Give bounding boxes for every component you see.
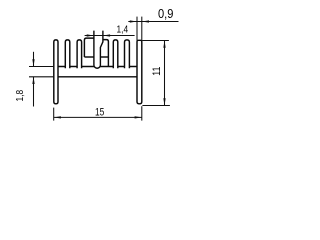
fin F3: [77, 40, 82, 68]
heatsink profile: left bar (fin F1 + left solder pin): [54, 40, 58, 104]
dim 11 top extension: [142, 40, 169, 42]
arrow 15 right (points right, tip at ext): [135, 116, 142, 118]
arrow 1,8 top (points down): [32, 59, 34, 66]
svg-text:15: 15: [95, 107, 104, 119]
heatsink profile: right bar (edge fin + right solder pin): [137, 40, 142, 104]
fin F5: [113, 40, 118, 68]
dim 15 left extension: [53, 108, 55, 121]
dim 1,8 bottom extension: [29, 76, 54, 78]
central right shoulder: [100, 56, 108, 58]
svg-text:11: 11: [151, 67, 163, 76]
central right cap fin: [103, 40, 109, 67]
arrow 1,8 bottom (points up): [32, 77, 34, 84]
central left shoulder: [84, 56, 94, 58]
arrow 15 left (points left, tip at ext): [54, 116, 61, 118]
svg-text:1,4: 1,4: [117, 24, 129, 35]
fin F2: [65, 40, 70, 68]
arrow 0,9 right (points left, tip at right ext): [142, 20, 149, 22]
arrow 11 bottom (points down): [163, 98, 165, 105]
dim 1,8 arrow line upper: [33, 52, 35, 67]
wire base bottom line: [58, 76, 137, 78]
central left cap fin: [84, 38, 94, 57]
svg-text:1,8: 1,8: [14, 90, 25, 102]
arrow 11 top (points up): [163, 41, 165, 48]
svg-text:0,9: 0,9: [158, 6, 174, 21]
dim 11 bottom extension: [142, 105, 170, 107]
dim 15 line: [54, 116, 142, 118]
dim 0,9 extension lines: [136, 17, 138, 43]
arrow 1,4 right (points left): [103, 34, 110, 36]
dim 1,8 arrow line lower: [33, 77, 35, 107]
central screw channel (slot walls double as 1,4 extension lines): [94, 31, 103, 69]
fin F6: [125, 40, 130, 68]
dim 15 right extension: [141, 106, 143, 120]
dim 1,4 line: [85, 35, 135, 37]
dim 1,8 top extension: [29, 66, 54, 68]
arrow 0,9 left (points right, tip at left ext): [130, 20, 137, 22]
arrow 1,4 left (points right): [87, 34, 94, 36]
dim 0,9 line: [128, 21, 178, 23]
wire base top line: [58, 66, 137, 68]
dim 11 line: [164, 41, 166, 106]
